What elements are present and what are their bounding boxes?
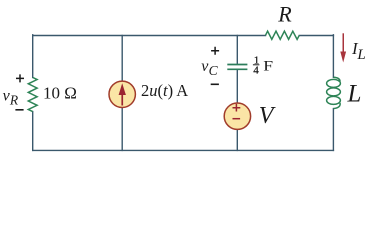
label plus of vR: [16, 74, 24, 82]
svg-text:2u(t) A: 2u(t) A: [141, 81, 188, 100]
label plus of vC: [211, 47, 219, 55]
voltage source minus sign: [233, 118, 241, 120]
wire left vertical upper: [32, 35, 34, 78]
svg-text:L: L: [347, 80, 362, 107]
wire voltage source to bottom: [236, 130, 238, 150]
resistor 10 Ohm zigzag: [28, 77, 37, 111]
current source arrow: [119, 83, 126, 105]
svg-text:4: 4: [253, 65, 259, 77]
label 1/4 F fraction: [253, 54, 273, 76]
wire current-source branch lower: [121, 108, 123, 150]
svg-text:10 Ω: 10 Ω: [43, 83, 77, 102]
label minus of vR: [15, 109, 23, 111]
svg-text:IL: IL: [351, 39, 366, 63]
inductor L coil: [327, 77, 341, 108]
label minus of vC: [211, 83, 219, 85]
voltage source plus sign: [233, 104, 241, 119]
wire top left horizontal: [33, 35, 266, 37]
current source 2u(t) A: [109, 81, 135, 107]
wire left vertical lower: [32, 112, 34, 151]
wire capacitor to voltage source: [236, 70, 238, 103]
capacitor C plates: [227, 65, 247, 70]
wire capacitor branch upper: [236, 36, 238, 64]
current arrow IL: [340, 33, 346, 62]
voltage source V: [224, 103, 250, 129]
svg-text:F: F: [263, 59, 273, 74]
svg-text:vR: vR: [3, 88, 19, 108]
wire bottom horizontal: [33, 149, 334, 151]
wire current-source branch upper: [121, 36, 123, 81]
resistor R zigzag: [266, 31, 300, 39]
wire right vertical lower: [332, 109, 334, 151]
svg-text:R: R: [277, 2, 292, 27]
wire top right horizontal after R: [299, 35, 333, 37]
svg-text:vC: vC: [201, 58, 218, 78]
wire right vertical upper: [332, 35, 334, 78]
svg-text:V: V: [259, 103, 276, 129]
